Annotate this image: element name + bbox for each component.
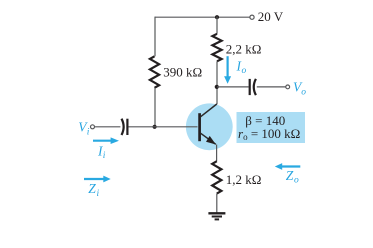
node collector junction	[215, 85, 219, 89]
wire collector branch	[216, 61, 218, 104]
svg-text:i: i	[87, 127, 90, 137]
svg-text:i: i	[97, 189, 100, 199]
terminal 20V	[250, 15, 254, 19]
wire to ground	[216, 194, 218, 213]
node base junction	[153, 125, 157, 129]
emitter lead	[201, 133, 216, 144]
resistor R1 390k	[150, 56, 159, 88]
wire input left	[95, 126, 121, 128]
capacitor C1 input	[122, 119, 124, 135]
arrow Zo	[281, 165, 300, 167]
arrow Ii	[93, 140, 111, 142]
transistor highlight circle	[186, 103, 233, 150]
wire left branch upper	[154, 17, 156, 57]
capacitor C2 output	[249, 79, 251, 95]
collector lead	[201, 104, 217, 117]
svg-text:ro = 100 kΩ: ro = 100 kΩ	[238, 126, 300, 142]
wire input right	[128, 126, 197, 128]
svg-text:Z: Z	[286, 168, 294, 183]
node top rail junction	[215, 15, 219, 19]
arrow Zi	[84, 178, 104, 180]
svg-text:o: o	[301, 87, 306, 97]
wire right branch upper	[216, 17, 218, 34]
wire output left	[217, 86, 249, 88]
resistor R3 1.2k	[212, 161, 221, 193]
svg-text:o: o	[242, 66, 247, 76]
wire emitter	[216, 145, 218, 162]
svg-text:Z: Z	[88, 181, 96, 196]
wire top rail	[155, 16, 250, 18]
terminal Vo	[286, 85, 290, 89]
svg-text:20 V: 20 V	[258, 9, 284, 24]
ground	[208, 213, 225, 219]
svg-text:i: i	[103, 151, 106, 161]
label box beta/ro	[237, 112, 306, 143]
svg-text:390 kΩ: 390 kΩ	[163, 65, 202, 80]
svg-text:1,2 kΩ: 1,2 kΩ	[226, 172, 262, 187]
terminal Vi	[91, 125, 95, 129]
svg-text:2,2 kΩ: 2,2 kΩ	[226, 41, 262, 56]
wire output right	[257, 86, 286, 88]
svg-text:o: o	[294, 176, 299, 186]
wire left branch lower	[154, 88, 156, 127]
emitter arrowhead	[206, 136, 216, 145]
transistor Q1	[200, 104, 217, 145]
resistor R2 2.2k	[212, 34, 221, 62]
base bar	[198, 113, 201, 141]
arrow Io	[227, 56, 229, 77]
